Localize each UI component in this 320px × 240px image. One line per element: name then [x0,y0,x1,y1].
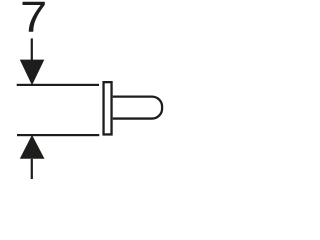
top reference line [17,84,99,86]
dimension extension line top [31,38,33,61]
spigot pin [113,97,162,119]
dimension value 7 [23,2,45,32]
flange plate [104,82,112,134]
arrow up [20,135,45,159]
dimension extension line bottom [31,159,33,179]
arrow down [20,60,45,86]
bottom reference line [17,134,99,136]
